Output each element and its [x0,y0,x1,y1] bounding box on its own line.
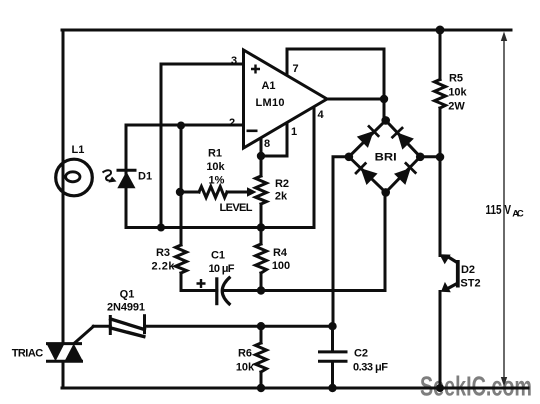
svg-text:8: 8 [264,138,270,150]
svg-text:R5: R5 [449,73,463,85]
svg-text:D1: D1 [138,171,152,183]
svg-text:C1: C1 [211,250,225,262]
svg-text:R3: R3 [156,247,170,259]
svg-text:D2: D2 [461,264,475,276]
svg-text:3: 3 [231,55,237,67]
svg-text:10k: 10k [236,362,255,374]
svg-text:AC: AC [512,209,524,220]
svg-text:10k: 10k [448,87,467,99]
svg-text:10k: 10k [206,161,225,173]
svg-text:7: 7 [292,63,298,75]
svg-text:4: 4 [317,109,324,121]
svg-text:2W: 2W [448,101,465,113]
svg-text:R4: R4 [273,247,288,259]
svg-text:LEVEL: LEVEL [220,202,253,214]
svg-text:TRIAC: TRIAC [12,348,44,360]
svg-text:R1: R1 [208,148,222,160]
svg-text:115 V: 115 V [486,202,512,217]
svg-text:2.2k: 2.2k [152,261,176,273]
svg-text:1: 1 [291,126,297,138]
svg-text:C2: C2 [354,348,368,360]
svg-text:2: 2 [229,117,235,129]
svg-text:R2: R2 [275,178,289,190]
svg-text:BRI: BRI [375,152,397,164]
svg-text:LM10: LM10 [256,97,285,109]
svg-text:10 μF: 10 μF [209,263,235,275]
svg-text:100: 100 [272,260,290,272]
svg-text:2N4991: 2N4991 [107,302,145,314]
svg-text:ST2: ST2 [460,278,480,290]
svg-text:0.33 μF: 0.33 μF [353,362,388,374]
svg-text:2k: 2k [275,191,288,203]
svg-text:1%: 1% [209,175,225,187]
svg-text:Q1: Q1 [120,289,135,301]
svg-text:R6: R6 [238,348,252,360]
svg-text:L1: L1 [72,144,85,156]
svg-text:A1: A1 [261,80,275,92]
